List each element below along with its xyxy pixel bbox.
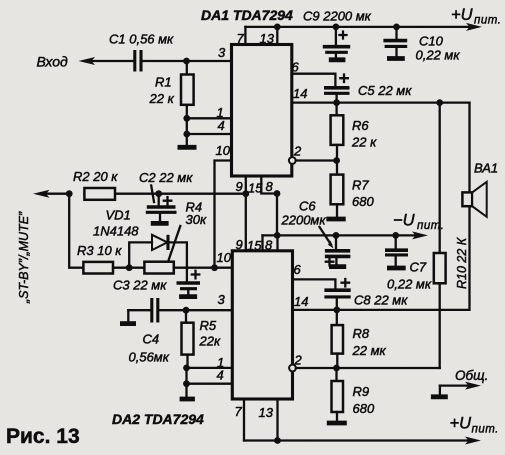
pin 15 DA2	[247, 238, 262, 253]
pin 4 DA1	[218, 118, 225, 133]
node +Upit bottom label	[450, 415, 499, 436]
label DA2 TDA7294	[112, 411, 204, 427]
wire control to R3	[69, 194, 83, 268]
pin 10 DA1	[216, 143, 231, 158]
label pin 2 DA2	[294, 353, 303, 368]
ground bar under C2	[151, 221, 169, 226]
label R8 value	[352, 326, 387, 358]
speaker BA1	[462, 182, 486, 217]
wire DA1 pin7 stub	[244, 27, 246, 45]
label C5 value	[358, 83, 412, 98]
junction control/R3	[66, 190, 73, 197]
label C4 value	[129, 332, 170, 365]
resistor R9 680	[332, 368, 344, 421]
label C10 value	[416, 34, 461, 63]
pin 7 DA1	[237, 31, 245, 46]
pin 4 DA2	[217, 368, 224, 383]
junction pin10 column	[211, 264, 218, 271]
label R3 value	[77, 243, 122, 258]
paper texture	[0, 0, 1, 1]
figure caption	[6, 425, 80, 448]
ground under R5 node	[180, 384, 195, 399]
pin 9 DA1	[236, 179, 243, 194]
wire DA2 pin15 stub	[261, 235, 263, 250]
label C1 value	[109, 32, 174, 47]
pin 10 DA2	[217, 250, 232, 265]
ground bar under C9	[329, 57, 346, 62]
resistor R5 22k	[182, 310, 194, 368]
capacitor C8 22uF	[324, 279, 350, 310]
label R2 value	[73, 169, 118, 184]
wire DA1 pin6 bootstrap	[292, 74, 336, 86]
capacitor C6 2200uF	[325, 232, 351, 266]
pin 14 DA2	[294, 294, 308, 309]
label R4 value	[169, 200, 207, 260]
label C9 value	[303, 9, 372, 24]
ground bar under C7	[387, 266, 406, 271]
label R6 value	[351, 118, 377, 150]
pin 15 DA1	[248, 181, 263, 196]
pin 1 DA2	[217, 355, 224, 370]
pin 3 DA2	[218, 292, 226, 307]
label C6 value	[281, 199, 334, 249]
resistor R1 22k	[181, 61, 194, 118]
label R1 value	[149, 75, 175, 107]
label R5 value	[199, 318, 221, 349]
capacitor C9 2200uF	[323, 24, 350, 58]
pin 14 DA1	[293, 86, 307, 101]
pin 3 DA1	[218, 45, 226, 60]
node Obshch common terminal	[431, 382, 481, 397]
wire +Upit bottom rail	[244, 437, 481, 445]
wire DA2 pin8 stub	[274, 232, 281, 251]
pin 8 DA1	[266, 179, 274, 194]
op-amp IC DA2 TDA7294 body	[232, 251, 292, 399]
arrow +Upit top right	[466, 23, 482, 31]
junction DA2 out node	[333, 307, 340, 314]
node +Upit top label	[451, 6, 501, 27]
capacitor C10 0.22uF	[383, 24, 407, 57]
resistor R3 10k	[83, 262, 144, 274]
wire -Upit rail	[263, 231, 429, 239]
junction R3/VD1	[126, 264, 133, 271]
label DA1 TDA7294	[201, 7, 293, 23]
pin 9 DA2	[236, 237, 243, 252]
wire DA1 pins 9/15 column to DA2	[242, 176, 249, 251]
wire DA1 pin14 output	[292, 99, 470, 106]
label C2 value	[139, 170, 193, 185]
wire DA2 pin7 stub to bottom rail	[243, 399, 245, 441]
capacitor C7 0.22uF	[385, 232, 408, 266]
wire speaker to DA2 out	[293, 207, 470, 310]
wire +Upit top rail	[245, 26, 470, 28]
resistor R7 680	[331, 161, 344, 217]
wire DA2 pin1	[183, 365, 232, 372]
node ST-BY/MUTE label	[17, 211, 31, 304]
wire DA1 pin8	[261, 176, 280, 235]
ground bar under R9	[327, 421, 347, 426]
pin 2 DA1 inverting input	[289, 157, 340, 164]
node Vhod input arrow	[79, 57, 134, 65]
capacitor C5 22uF	[324, 75, 350, 103]
label R10 value	[455, 237, 469, 289]
resistor R8 22k	[332, 310, 343, 368]
wire DA1 pin13 stub	[274, 24, 281, 45]
wire DA1 out to speaker	[468, 103, 470, 191]
wire ST-BY/MUTE control line	[33, 190, 246, 198]
ground bar under C10	[387, 56, 405, 61]
wire DA1 pin1	[183, 115, 231, 122]
label BA1	[474, 161, 498, 176]
label Obshch	[455, 368, 488, 383]
capacitor C2 22uF	[146, 186, 177, 222]
ground bar under R7	[326, 217, 345, 222]
label VD1	[93, 208, 139, 239]
resistor R10 22k bridge feedback	[434, 103, 446, 368]
wire DA1 pin10	[215, 161, 232, 268]
pin 2 DA2 inverting input	[289, 365, 440, 372]
wire C1 to DA1 pin3	[143, 58, 232, 65]
wire DA1 pin4	[183, 118, 231, 137]
node -Upit label	[393, 212, 444, 233]
pin 6 DA2	[294, 262, 302, 277]
wire DA2 pin6 bootstrap	[293, 279, 336, 288]
capacitor C4 0.56uF	[128, 298, 232, 323]
ground under R1 node	[178, 134, 197, 147]
capacitor C1 0.56uF	[135, 50, 141, 72]
resistor R4 30k	[144, 262, 232, 274]
label Vhod	[37, 54, 69, 70]
ground bar under C3	[179, 294, 197, 299]
pin 7 DA2	[235, 404, 243, 419]
op-amp IC DA1 TDA7294 body	[232, 45, 292, 177]
label C7 value	[387, 260, 432, 292]
resistor R2 20k	[84, 188, 115, 200]
pin 6 DA1	[292, 60, 300, 75]
pin 13 DA2	[259, 405, 274, 420]
ground bar under C6	[329, 264, 346, 269]
pin 13 DA1	[260, 31, 275, 46]
label R7 value	[352, 178, 374, 210]
wire DA2 pin13 stub	[274, 399, 281, 444]
ground left of C4	[120, 310, 136, 323]
pin 8 DA2	[265, 238, 273, 253]
label pin 2 DA1	[293, 144, 302, 159]
wire DA2 pin4	[183, 368, 232, 387]
resistor R6 22k	[331, 103, 344, 161]
pin 1 DA1	[217, 105, 224, 120]
label R9 value	[353, 384, 375, 416]
diode VD1 1N4148	[129, 235, 187, 268]
label C8 value	[354, 293, 408, 308]
capacitor C3 22uF	[177, 268, 201, 295]
label C3 value	[113, 278, 167, 293]
